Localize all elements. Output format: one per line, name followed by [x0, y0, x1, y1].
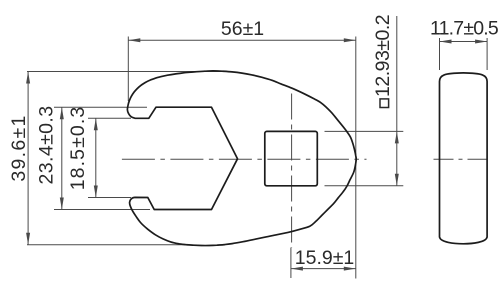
dim 23.4&#177;0.3 extension line bottom — [54, 209, 150, 211]
svg-text:12.93±0.2: 12.93±0.2 — [372, 15, 394, 97]
dim 39.6&#177;1 dimension line — [27, 72, 29, 245]
dim 56&#177;1 arrow left — [128, 38, 140, 42]
dim 23.4&#177;0.3 extension line top — [54, 106, 147, 108]
dim 15.9&#177;1 dimension line — [291, 268, 356, 270]
svg-text:23.4±0.3: 23.4±0.3 — [36, 106, 58, 185]
dim 23.4&#177;0.3 arrows — [60, 107, 64, 119]
dim 56&#177;1 extension line left — [127, 37, 129, 102]
dim 18.5&#177;0.3 arrows — [94, 118, 98, 130]
dim 23.4&#177;0.3 dimension line — [61, 107, 63, 209]
side view body outline — [440, 73, 488, 244]
dim 39.6&#177;1 extension line bottom — [27, 244, 185, 246]
dim 12.93&#177;0.2 arrows — [395, 131, 399, 143]
dim 39.6&#177;1 extension line top — [27, 71, 232, 73]
crowfoot wrench head outline (top view) — [127, 71, 356, 246]
dim 11.7&#177;0.5 extension lines — [440, 38, 488, 70]
dim 15.9&#177;1 extension line left — [290, 248, 292, 279]
dim 39.6&#177;1 arrows — [26, 72, 30, 84]
dim 56&#177;1 dimension line — [128, 39, 355, 41]
vertical centerline through square drive hole — [291, 94, 293, 249]
svg-text:39.6±1: 39.6±1 — [8, 114, 30, 181]
dim 18.5&#177;0.3 dimension line — [95, 118, 97, 197]
dim 11.7&#177;0.5 dimension line — [440, 41, 488, 43]
dim 12.93&#177;0.2 dimension line — [396, 16, 398, 186]
square drive hole — [265, 131, 318, 185]
side view horizontal centerline — [434, 158, 492, 160]
dim 12.93&#177;0.2 label (rotated, with square symbol) — [372, 15, 394, 108]
dim 11.7&#177;0.5 arrows — [440, 40, 452, 44]
dim 56&#177;1 arrow right — [344, 38, 356, 42]
dim 12.93&#177;0.2 extension lines — [325, 131, 404, 185]
dim 56&#177;1 extension line right (shared with 15.9) — [355, 37, 357, 279]
dim 18.5&#177;0.3 extension line top — [88, 117, 131, 119]
svg-text:15.9±1: 15.9±1 — [295, 247, 355, 269]
svg-text:18.5±0.3: 18.5±0.3 — [67, 106, 89, 191]
dim 15.9&#177;1 arrows — [291, 267, 303, 271]
svg-text:56±1: 56±1 — [221, 18, 264, 40]
svg-text:11.7±0.5: 11.7±0.5 — [430, 18, 499, 40]
dim 18.5&#177;0.3 extension line bottom — [88, 197, 131, 199]
horizontal centerline of wrench head — [122, 158, 367, 160]
